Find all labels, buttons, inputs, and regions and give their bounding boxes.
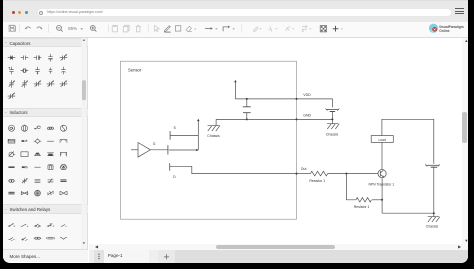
wire R2 to emitter xyxy=(371,199,381,201)
svg-text:Out: Out xyxy=(300,167,306,171)
svg-text:Chassis: Chassis xyxy=(325,132,338,136)
transistor Q1 gate plate xyxy=(166,145,168,154)
battery B1 bottom lead xyxy=(331,111,333,119)
wire op-amp input stub xyxy=(131,149,138,151)
node sensor edge Out xyxy=(295,172,297,174)
wire R1 to base node xyxy=(327,172,346,174)
svg-text:Load: Load xyxy=(378,138,385,142)
ground chassis symbol middle xyxy=(327,119,339,129)
node sensor edge GND xyxy=(295,118,297,120)
drawing canvas xyxy=(89,38,468,263)
svg-text:D: D xyxy=(173,175,176,179)
node sensor edge VDD xyxy=(295,98,297,100)
wire bottom rail xyxy=(382,212,434,214)
toolbar xyxy=(3,22,468,38)
wire Out to resistor R1 xyxy=(296,172,310,174)
svg-text:85%: 85% xyxy=(68,26,77,31)
wire top rail xyxy=(381,119,433,163)
resistor R1 zigzag xyxy=(310,171,327,176)
sensor block boundary xyxy=(120,61,296,219)
svg-text:Chassis: Chassis xyxy=(425,224,438,228)
transistor Q1 drain bar xyxy=(168,163,170,170)
node emitter junction xyxy=(381,199,383,201)
wire GND to battery xyxy=(296,118,332,120)
svg-text:NPN Transistor 1: NPN Transistor 1 xyxy=(368,182,394,186)
transistor Q2 NPN circle xyxy=(377,169,385,177)
ground chassis symbol left xyxy=(207,125,219,130)
svg-text:G: G xyxy=(152,142,155,146)
browser chrome bar xyxy=(3,0,468,22)
svg-text:Chassis: Chassis xyxy=(207,134,220,138)
ground chassis symbol right xyxy=(427,213,439,222)
node VDD junction xyxy=(245,98,247,100)
load LOAD1 box xyxy=(371,135,393,142)
wire base node to transistor base xyxy=(346,172,378,174)
visual paradigm logo xyxy=(427,23,468,34)
svg-text:GND: GND xyxy=(303,113,311,117)
wire drain step inside sensor xyxy=(169,166,296,173)
battery B2 plates xyxy=(425,164,439,166)
battery B1 plates xyxy=(325,108,338,110)
capacitor C1 bottom lead xyxy=(245,112,247,119)
wire base node down to resistor R2 xyxy=(346,173,356,199)
node battery GND junction xyxy=(331,118,333,120)
transistor Q1 source bar xyxy=(169,131,171,140)
canvas horizontal scrollbar xyxy=(89,244,468,250)
svg-text:VDD: VDD xyxy=(303,93,311,97)
wire vertical link node A xyxy=(197,120,199,149)
wire GND drop to chassis xyxy=(215,119,217,125)
canvas vertical scrollbar xyxy=(462,38,468,245)
op-amp U1 buffer triangle xyxy=(138,142,150,157)
capacitor C1 top lead xyxy=(245,99,247,107)
resistor R2 zigzag xyxy=(355,197,370,201)
wire load to collector xyxy=(380,142,382,169)
wire battery B2 to bottom rail xyxy=(432,167,434,213)
svg-text:Resistor 1: Resistor 1 xyxy=(309,179,325,183)
svg-text:Online: Online xyxy=(439,29,449,33)
node base junction xyxy=(345,172,347,174)
capacitor C1 plates xyxy=(242,107,250,113)
wire op-amp output to gate xyxy=(150,149,167,151)
left shape panel xyxy=(3,38,89,263)
transistor Q2 internals xyxy=(380,170,383,176)
svg-text:S: S xyxy=(173,126,176,130)
wire VDD rail inside sensor xyxy=(235,98,296,100)
svg-text:Resistor 1: Resistor 1 xyxy=(353,205,369,209)
wire gate line to node with arrow xyxy=(168,149,196,151)
wire GND rail inside sensor xyxy=(216,118,296,120)
wire VDD to battery xyxy=(296,99,332,107)
wire emitter down xyxy=(381,177,383,212)
wire source to node xyxy=(170,134,198,136)
wire antenna stub with arrow xyxy=(234,82,236,99)
node bottom rail junction xyxy=(432,212,434,214)
page tab bar xyxy=(89,250,468,263)
node GND junction xyxy=(245,118,247,120)
svg-text:Sensor: Sensor xyxy=(128,67,142,72)
